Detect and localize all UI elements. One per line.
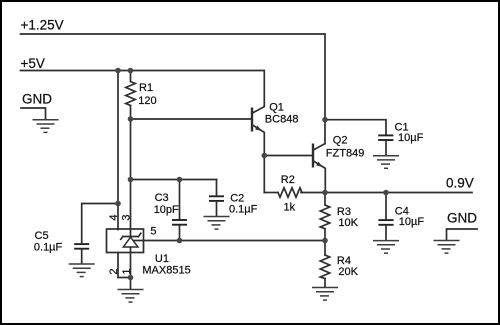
svg-text:R1: R1 [139,82,153,94]
svg-text:+5V: +5V [21,56,45,71]
svg-text:FZT849: FZT849 [326,147,365,159]
svg-text:4: 4 [108,214,120,220]
svg-text:20K: 20K [338,266,358,278]
svg-text:MAX8515: MAX8515 [142,265,190,277]
svg-text:5: 5 [150,226,156,238]
svg-text:R4: R4 [337,255,351,267]
svg-text:BC848: BC848 [265,114,299,126]
svg-text:10µF: 10µF [399,216,425,228]
svg-text:0.9V: 0.9V [446,176,474,191]
svg-text:10K: 10K [338,217,358,229]
svg-text:U1: U1 [155,253,169,265]
svg-text:+1.25V: +1.25V [21,18,64,33]
svg-text:R3: R3 [337,206,351,218]
svg-text:0.1µF: 0.1µF [34,241,63,253]
svg-text:1k: 1k [284,202,296,214]
svg-text:3: 3 [121,214,133,220]
svg-text:1: 1 [121,268,133,274]
svg-text:120: 120 [138,95,156,107]
svg-text:0.1µF: 0.1µF [229,203,258,215]
svg-text:10µF: 10µF [398,132,424,144]
svg-text:10pF: 10pF [154,204,179,216]
svg-text:GND: GND [447,211,477,226]
svg-text:Q1: Q1 [269,102,284,114]
svg-text:R2: R2 [281,174,295,186]
svg-text:GND: GND [22,91,52,106]
svg-text:C3: C3 [155,192,169,204]
svg-text:Q2: Q2 [333,135,348,147]
svg-text:2: 2 [108,268,120,274]
